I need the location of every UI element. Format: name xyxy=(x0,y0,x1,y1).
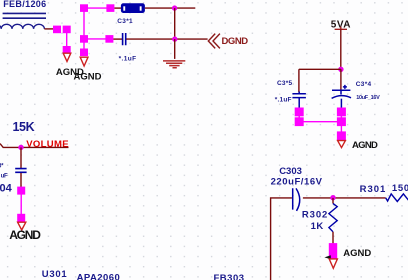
svg-text:R302: R302 xyxy=(302,210,328,221)
transformer core bar 1 xyxy=(3,12,46,14)
svg-text:1K: 1K xyxy=(311,221,324,232)
label 220uF/16V xyxy=(271,177,323,188)
svg-text:AGND: AGND xyxy=(343,248,371,259)
svg-text:04: 04 xyxy=(0,183,13,195)
junction node top xyxy=(172,5,177,10)
ground AGND triangle G2 xyxy=(80,57,88,66)
wire magenta bottom connector xyxy=(299,121,341,123)
wire volume down xyxy=(20,147,22,168)
wire C303 net left and down xyxy=(271,198,292,280)
svg-text:AGND: AGND xyxy=(74,71,102,82)
power 5VA bar xyxy=(335,27,347,30)
wire magenta P1-P2 xyxy=(298,112,300,122)
pad P1 xyxy=(295,108,304,117)
pad Q2 xyxy=(337,117,346,126)
svg-text:C3*4: C3*4 xyxy=(356,81,372,88)
wire T2 to bead xyxy=(114,7,121,9)
label R301 xyxy=(360,184,387,195)
svg-text:10uF_16V: 10uF_16V xyxy=(356,95,380,101)
label value .1uF left xyxy=(275,96,292,103)
pad R302 bottom xyxy=(329,243,337,258)
svg-text:*.1uF: *.1uF xyxy=(275,96,292,103)
pad S1 xyxy=(17,187,25,195)
svg-text:C3*1: C3*1 xyxy=(117,18,133,25)
svg-text:1500: 1500 xyxy=(392,183,408,194)
svg-text:U301: U301 xyxy=(42,269,68,280)
wire M2 to capacitor xyxy=(113,38,122,40)
ground AGND triangle G3 xyxy=(18,222,26,230)
transformer core bar 2 xyxy=(3,17,46,19)
resistor R301 zigzag xyxy=(386,194,408,202)
label 15K xyxy=(13,120,35,134)
svg-text:R301: R301 xyxy=(360,184,387,195)
pad M1 xyxy=(80,35,88,43)
label value .1uF xyxy=(119,55,137,62)
label C3*4 xyxy=(356,81,372,88)
wire bead to end xyxy=(145,7,195,9)
capacitor C303 polarized xyxy=(293,188,300,211)
label DGND xyxy=(222,36,249,47)
junction node R302 xyxy=(330,195,335,200)
wire 5VA down right branch xyxy=(340,69,342,89)
svg-text:DGND: DGND xyxy=(222,36,249,47)
port DGND chevron xyxy=(208,34,220,49)
wire branch left xyxy=(299,69,341,92)
label R302 xyxy=(302,210,328,221)
label APA2060 xyxy=(77,273,121,280)
pin arrow marker xyxy=(324,255,330,259)
wire magenta M1 down to M3 xyxy=(83,39,85,52)
wire R302 to pad xyxy=(332,232,334,244)
pad L1 xyxy=(53,26,61,34)
wire 5VA down xyxy=(340,29,342,69)
label clipped 3* xyxy=(0,163,4,169)
wire capacitor to DGND xyxy=(126,38,207,40)
label AGND 2 xyxy=(74,71,102,82)
resistor R302 zigzag xyxy=(329,204,337,232)
svg-text:15K: 15K xyxy=(13,120,35,134)
wire magenta Q stack xyxy=(340,108,342,140)
wire cap to pad Q1 xyxy=(340,99,342,108)
pad L2 xyxy=(63,26,71,34)
label FB1 ferrite bead text FEB/1206 xyxy=(3,0,46,9)
pad Q1 xyxy=(337,108,346,117)
wire VOLUME net xyxy=(0,144,69,148)
junction node mid xyxy=(172,36,177,41)
wire cap to pad S1 xyxy=(20,173,22,187)
pad M2 xyxy=(105,35,113,43)
wire inductor to pads xyxy=(44,28,54,30)
wire magenta M1 to M2 xyxy=(84,38,109,40)
junction node volume xyxy=(18,145,23,150)
capacitor C304 plates xyxy=(15,169,26,173)
pad S2 xyxy=(17,214,25,223)
ferrite bead FB body xyxy=(121,3,145,13)
pad T2 xyxy=(106,4,114,12)
label AGND bottom-right xyxy=(343,248,371,259)
svg-text:APA2060: APA2060 xyxy=(77,273,121,280)
pad L3 xyxy=(63,46,71,54)
pad Q3 xyxy=(337,131,346,140)
pad M3 xyxy=(80,49,88,57)
wire magenta T1 down to M1 xyxy=(83,8,85,39)
svg-text:VOLUME: VOLUME xyxy=(26,139,69,150)
label 150 xyxy=(392,183,408,194)
capacitor C3*4 polarized xyxy=(332,85,351,99)
label 1K xyxy=(311,221,324,232)
ground AGND triangle G5 xyxy=(329,259,337,268)
svg-text:AGND: AGND xyxy=(352,140,378,151)
wire C303 to R301 xyxy=(303,197,386,199)
pad P2 xyxy=(295,117,304,126)
label AGND right xyxy=(352,140,378,151)
pad T1 xyxy=(80,4,88,12)
earth ground symbol xyxy=(163,61,185,68)
label clipped uF xyxy=(1,173,8,179)
wire junction2 down to earth ground xyxy=(174,39,176,59)
label C3*5 xyxy=(277,80,292,87)
label clipped 04 xyxy=(0,183,13,195)
svg-text:AGND: AGND xyxy=(9,228,41,242)
label FB303 xyxy=(214,273,245,280)
label C3*1 xyxy=(117,18,133,25)
wire vertical junction1 to junction2 xyxy=(174,8,176,39)
wire magenta T1 to T2 xyxy=(84,7,110,9)
label AGND bottom-left xyxy=(9,228,41,242)
inductor L1 winding xyxy=(0,24,44,29)
label AGND 1 xyxy=(56,67,84,78)
wire magenta S1-S2 xyxy=(20,191,22,219)
junction node 5VA branch xyxy=(338,67,343,72)
ground AGND triangle G4 xyxy=(338,141,346,148)
label U301 xyxy=(42,269,68,280)
capacitor C3*5 plates xyxy=(292,92,306,108)
net label VOLUME xyxy=(26,139,69,150)
svg-text:uF: uF xyxy=(1,173,8,179)
label C303 xyxy=(279,166,302,177)
svg-text:*.1uF: *.1uF xyxy=(119,55,137,62)
svg-text:220uF/16V: 220uF/16V xyxy=(271,177,323,188)
svg-text:C303: C303 xyxy=(279,166,302,177)
svg-text:FEB/1206: FEB/1206 xyxy=(3,0,46,9)
svg-text:FB303: FB303 xyxy=(214,273,245,280)
ground AGND triangle G1 xyxy=(63,53,71,61)
svg-text:C3*5: C3*5 xyxy=(277,80,292,87)
power 5VA label xyxy=(331,19,351,30)
wire junction to R302 xyxy=(332,198,334,204)
label value 10uF_16V xyxy=(356,95,380,101)
capacitor C1 0.1uF plates xyxy=(123,33,126,45)
wire magenta L2 down xyxy=(66,33,68,50)
